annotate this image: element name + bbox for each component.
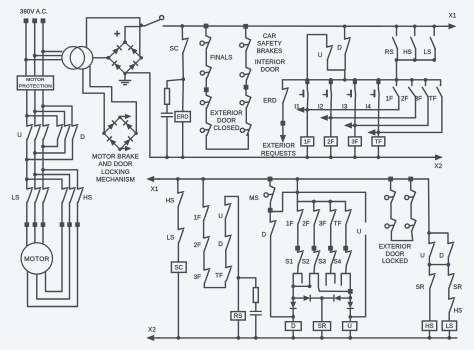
contact I3: [354, 89, 357, 100]
wire SR coil to X2: [321, 330, 323, 338]
wire rail to SC: [181, 26, 183, 40]
wire 1F to 2F: [203, 220, 205, 238]
switch exterior door closed 3: [240, 95, 251, 108]
wire LS1 to motor: [26, 227, 28, 248]
overload terminal 2: [33, 222, 38, 227]
terminal finals mid: [204, 87, 209, 92]
arrow X1 right: [446, 23, 457, 29]
wire finals stem2: [205, 48, 207, 65]
junction UD bracket rail2: [343, 78, 347, 82]
wire diode row right seg: [341, 297, 351, 299]
junction D coil node: [291, 315, 295, 319]
wire L3 to D3: [43, 106, 72, 126]
wire X2 rail upper: [150, 156, 435, 158]
wire X1 rail segment A: [163, 25, 449, 27]
wire HS drop: [415, 48, 417, 60]
junction 1F contact rail2: [395, 78, 399, 82]
junction HS stem X1: [413, 24, 417, 28]
resistor R1: [165, 89, 170, 105]
wire ERD coil to X2: [182, 122, 184, 158]
wire door closed stem3: [245, 89, 247, 95]
contact 3F selector: [422, 87, 428, 97]
overload terminal 1: [25, 222, 30, 227]
wire phase L3 vertical: [42, 23, 44, 76]
junction RS bottom: [395, 58, 399, 62]
junction I4 row: [377, 131, 381, 135]
wire RS coil line: [237, 278, 239, 312]
svg-text:PROTECTION: PROTECTION: [19, 83, 52, 89]
wire D right to node: [447, 257, 449, 265]
wire L1 to D1: [27, 116, 57, 126]
wire MS to terminal: [269, 202, 271, 208]
wire 3F selector drop: [427, 97, 429, 126]
relay coil ERD: [175, 112, 190, 122]
capacitor C1: [161, 112, 172, 114]
svg-text:SC: SC: [170, 46, 179, 53]
junction LS coil X2: [448, 336, 452, 340]
terminal I4 top: [376, 80, 380, 84]
wire resistor to capacitor: [166, 104, 168, 113]
wire D stem: [344, 26, 346, 39]
wire to overload 6: [77, 202, 79, 222]
arrow X2 left: [146, 335, 160, 341]
terminal MS bottom: [268, 208, 273, 213]
wire door locked A mid: [390, 203, 392, 219]
wire S rail L2: [297, 202, 345, 212]
wire to HS1: [27, 179, 62, 189]
wire 1F contact stem: [396, 80, 398, 86]
wire U pole2 down: [34, 139, 36, 189]
push button S1 contact: [298, 251, 304, 266]
contact 3F lower: [204, 269, 210, 284]
terminal car safety top: [243, 24, 248, 29]
contact D mid: [225, 235, 231, 250]
wire door locked B mid: [410, 203, 412, 219]
contact 2F selector: [409, 87, 416, 97]
svg-text:MECHANISM: MECHANISM: [96, 177, 135, 184]
junction F column stem: [201, 177, 205, 181]
svg-text:U: U: [218, 213, 223, 220]
svg-text:2F: 2F: [327, 139, 334, 145]
wire to overload 5: [69, 202, 71, 222]
junction coil 3F X2: [353, 155, 357, 159]
wire I1 to row: [306, 99, 308, 109]
motor protection device: [17, 76, 53, 90]
contactor LS pole 2: [35, 188, 41, 203]
svg-text:S2: S2: [302, 259, 310, 266]
wire to HS3: [43, 170, 78, 189]
wire HS2 loop: [37, 227, 70, 299]
wire TF aux to terminal: [345, 224, 347, 246]
wire L2 to transformer: [35, 55, 62, 57]
wire ERD coil line: [182, 79, 185, 111]
relay coil SC: [171, 262, 186, 272]
terminal I3 top: [353, 80, 357, 84]
contact RS upper: [393, 37, 398, 48]
svg-text:X1: X1: [151, 186, 159, 193]
svg-text:TF: TF: [334, 220, 342, 227]
wire control rail2: [283, 80, 441, 86]
junction L3 to D branch: [41, 104, 45, 108]
arrow X1 left: [146, 176, 160, 182]
svg-text:1F: 1F: [386, 95, 394, 102]
junction L1 cross: [296, 190, 300, 194]
wire I2 to row: [330, 99, 332, 117]
svg-text:INTERIOR: INTERIOR: [255, 59, 286, 66]
svg-text:U: U: [318, 52, 323, 59]
diode D2 steering: [334, 295, 341, 301]
wire to diode D3: [292, 298, 294, 302]
svg-text:D: D: [291, 324, 296, 330]
contact U mid: [225, 204, 231, 219]
wire snubber branch: [238, 278, 255, 288]
wire LS drop: [434, 48, 436, 60]
wire L1 below protection: [26, 90, 28, 126]
relay coil 3F: [349, 137, 362, 146]
relay coil D: [285, 322, 301, 331]
terminal S1 top: [295, 246, 300, 251]
terminal L2: [32, 18, 37, 23]
contact TF mid: [226, 266, 232, 281]
contact 1F aux: [297, 210, 303, 225]
junction I4 stem rail2: [377, 78, 381, 82]
transformer T1: [62, 47, 85, 70]
wire R2 to C2: [255, 303, 257, 312]
wire car safety stem2: [245, 80, 247, 85]
switch exterior door closed 2: [200, 123, 211, 136]
wire 1F selector drop: [398, 97, 400, 110]
wire square to diode row: [349, 294, 351, 298]
wire to HS2: [35, 175, 70, 190]
contactor HS pole 3: [78, 188, 84, 203]
contact SR right: [448, 274, 454, 289]
wire X2 rail lower: [158, 337, 457, 339]
wire I2 stem: [330, 80, 332, 89]
wire U right stem: [428, 233, 430, 244]
wire to overload 1: [26, 202, 28, 222]
junction main switch: [139, 24, 143, 28]
svg-text:FINALS: FINALS: [210, 55, 232, 62]
contact SC: [183, 38, 189, 53]
wire phase L2 vertical: [34, 23, 36, 76]
wire door closed stem4: [245, 108, 247, 123]
wire 3F contact stem: [425, 80, 427, 86]
diode D4 to U coil: [347, 302, 353, 309]
terminal L3: [41, 18, 46, 23]
arrow selector row 2F: [320, 115, 416, 121]
switch exterior door closed 4: [240, 123, 251, 136]
junction diode row left: [291, 296, 295, 300]
wire MS to D contact: [269, 212, 271, 222]
junction D coil X2: [291, 336, 295, 340]
wire HS lower stem: [177, 179, 179, 193]
junction ERD X2: [181, 155, 185, 159]
push button S4 bridge: [341, 274, 350, 290]
contactor LS pole 1: [27, 188, 33, 203]
svg-text:ERD: ERD: [263, 97, 277, 104]
svg-text:HS: HS: [454, 308, 463, 315]
svg-text:S1: S1: [285, 259, 293, 266]
arrow to exterior requests: [280, 126, 286, 144]
arrow brake DC minus: [121, 146, 132, 151]
wire D4 to node: [349, 308, 351, 316]
svg-text:EXTERIOR: EXTERIOR: [263, 143, 296, 150]
svg-text:3F: 3F: [352, 139, 359, 145]
switch interior door: [240, 67, 251, 80]
junction coil 1F X2: [305, 155, 309, 159]
capacitor C2: [250, 310, 261, 312]
relay coil LS: [442, 321, 456, 331]
svg-text:HS: HS: [166, 198, 175, 205]
wire C2 to X2: [255, 315, 257, 338]
contact I2: [330, 89, 333, 100]
arrow selector row 3F: [344, 122, 428, 128]
wire 3F aux stem: [329, 202, 331, 212]
wire U mid to U coil node: [350, 235, 365, 317]
wire brake supply right: [90, 67, 136, 133]
wire D lower to coil node: [271, 235, 294, 317]
wire 2F to 3F: [203, 251, 205, 270]
wire I1 to coil: [306, 110, 308, 137]
limit switch final 1: [200, 36, 211, 49]
terminal door locked A: [388, 177, 393, 182]
junction RS coil branch: [237, 276, 241, 280]
junction 2F contact rail2: [410, 78, 414, 82]
terminal request bus: [348, 289, 353, 294]
wire S4 stem: [345, 250, 347, 252]
contactor D pole 3: [72, 125, 78, 140]
svg-text:LS: LS: [12, 195, 20, 202]
junction coil 2F X2: [329, 155, 333, 159]
svg-text:HS: HS: [403, 49, 412, 56]
svg-text:SAFETY: SAFETY: [257, 41, 282, 48]
wire L1 to transformer: [26, 59, 62, 61]
relay coil 2F: [324, 137, 337, 146]
contact I1: [306, 89, 309, 100]
wire to D coil: [292, 317, 294, 322]
wire L1 link: [270, 192, 365, 222]
diode D1 steering: [304, 295, 311, 301]
svg-text:BRAKES: BRAKES: [257, 48, 283, 55]
svg-text:S3: S3: [318, 259, 326, 266]
svg-text:RS: RS: [234, 314, 243, 320]
contact D upper: [345, 38, 351, 55]
wire merge to rail2: [396, 60, 398, 80]
wire car safety stem1: [245, 28, 247, 37]
junction L2 to D branch: [33, 110, 37, 114]
junction HS lower stem: [176, 177, 180, 181]
contact HS lower: [178, 192, 184, 207]
junction rectifier top: [123, 40, 127, 44]
svg-text:S4: S4: [334, 259, 342, 266]
svg-text:U: U: [347, 324, 351, 330]
switch door locked A1: [385, 190, 396, 203]
wire finals stem1: [205, 28, 207, 36]
svg-text:D: D: [80, 134, 85, 141]
junction U coil X2: [348, 336, 352, 340]
svg-text:ERD: ERD: [177, 115, 189, 121]
wire phase L1 vertical: [25, 23, 27, 76]
svg-text:X2: X2: [148, 327, 156, 334]
svg-text:SR: SR: [318, 324, 327, 330]
svg-text:TF: TF: [429, 95, 437, 102]
svg-text:CAR: CAR: [263, 33, 277, 40]
wire HS right to LS coil: [448, 312, 450, 321]
svg-text:LS: LS: [446, 324, 454, 330]
contact 3F aux: [330, 210, 336, 225]
svg-text:1F: 1F: [286, 220, 294, 227]
wire RS drop: [396, 48, 398, 60]
junction L1 to D branch: [25, 114, 29, 118]
svg-text:MOTOR BRAKE: MOTOR BRAKE: [92, 154, 139, 161]
wire 2F selector drop: [415, 97, 417, 118]
terminal exterior requests: [281, 121, 286, 126]
switch door locked A2: [385, 219, 396, 232]
contact HS upper: [411, 37, 416, 48]
svg-text:TF: TF: [375, 139, 383, 145]
svg-text:2F: 2F: [302, 220, 310, 227]
push button S2 contact: [314, 251, 320, 266]
wire coil TF to X2: [377, 146, 379, 157]
contactor LS pole 3: [43, 188, 49, 203]
wire S4 to button: [345, 265, 348, 273]
svg-text:LOCKED: LOCKED: [382, 258, 408, 265]
terminal I2 top: [329, 80, 333, 84]
svg-text:LS: LS: [167, 235, 175, 242]
contact HS right: [449, 298, 455, 313]
wire HS coil to X2: [429, 331, 431, 338]
junction D2 merge: [33, 151, 37, 155]
svg-text:D: D: [439, 253, 444, 260]
wire 1F aux to terminal: [297, 224, 299, 246]
wire UDTF top bracket: [225, 196, 238, 277]
junction D3 merge: [25, 158, 29, 162]
wire MS stem: [269, 181, 271, 186]
push button S4 contact: [346, 251, 352, 266]
svg-text:RS: RS: [385, 49, 394, 56]
wire U pole1 down: [26, 139, 28, 189]
bridge rectifier motor brake: [102, 116, 138, 151]
wire D1 merge: [43, 139, 58, 146]
wire door closed stem1: [205, 92, 207, 95]
push button S3 contact: [331, 251, 337, 266]
wire door closed bottom bracket: [206, 134, 248, 149]
terminal car safety mid: [244, 85, 249, 90]
svg-text:MS: MS: [249, 195, 258, 202]
wire to resistor: [167, 79, 183, 88]
wire D coil to X2: [292, 330, 294, 338]
wire I3 to row: [354, 99, 356, 125]
svg-text:DOOR: DOOR: [261, 67, 280, 74]
terminal L1: [24, 18, 29, 23]
junction rectifier AC left: [106, 56, 110, 60]
junction D stem rail1: [343, 24, 347, 28]
wire D lower stem: [344, 54, 346, 70]
wire HS to LS: [177, 206, 179, 229]
wire D3 merge: [27, 139, 73, 159]
arrow brake DC plus: [121, 114, 132, 119]
wire door locked bottom bracket: [391, 231, 412, 241]
junction U coil node: [348, 315, 352, 319]
junction SC X2: [177, 336, 181, 340]
push button S1 bridge: [293, 274, 302, 287]
svg-text:U: U: [357, 229, 362, 236]
wire request bus: [319, 290, 348, 292]
junction S rail stem: [296, 177, 300, 181]
wire coil 3F to X2: [354, 146, 356, 157]
wire I3 to coil: [354, 125, 356, 136]
wire U bracket: [307, 35, 326, 80]
wire diode row mid seg: [310, 297, 333, 299]
wire coil 1F to X2: [306, 146, 308, 157]
wire S2 stem: [313, 250, 315, 252]
wire ERD contact stem: [282, 80, 284, 90]
junction L3 to HS branch: [41, 168, 45, 172]
wire HS3 loop: [28, 227, 78, 307]
contact 2F aux: [314, 210, 320, 225]
wire to SR left: [428, 265, 430, 275]
contact I4: [377, 89, 380, 100]
svg-text:I3: I3: [342, 104, 348, 111]
junction I3 stem rail2: [353, 78, 357, 82]
svg-text:SR: SR: [453, 284, 462, 291]
relay coil 1F: [301, 137, 314, 146]
wire transformer top to rail: [87, 18, 140, 57]
wire L2 below protection: [34, 90, 36, 126]
junction S1 output: [291, 284, 295, 288]
wire I2 to coil: [330, 118, 332, 137]
junction SR coil node: [320, 296, 324, 300]
contact U right: [429, 242, 435, 257]
junction diode row right: [348, 296, 352, 300]
terminal S2 top: [312, 246, 317, 251]
wire U right to node: [428, 257, 430, 265]
wire SR right to HS right: [448, 288, 450, 299]
wire ERD to terminal: [282, 102, 284, 121]
wire to overload 2: [34, 202, 36, 222]
wire to diode D4: [349, 298, 351, 302]
wire SC coil to X2: [177, 272, 179, 338]
contact 1F lower: [203, 206, 209, 221]
junction UD right bottom: [447, 263, 451, 267]
wire S2 hop to bus: [318, 283, 319, 291]
terminal S4 top: [343, 246, 348, 251]
wire interior door stem: [245, 50, 247, 67]
svg-text:MOTOR: MOTOR: [24, 256, 49, 263]
wire capacitor to X2: [166, 117, 168, 158]
wire RS HS LS merge: [397, 59, 435, 61]
relay coil U: [343, 322, 357, 331]
wire 2F aux stem: [313, 202, 315, 212]
terminal MS top: [268, 177, 273, 182]
svg-text:LS: LS: [424, 49, 432, 56]
main switch MS: [264, 186, 275, 202]
junction HS bottom: [413, 58, 417, 62]
junction S rail 2F: [312, 200, 316, 204]
wire to U coil: [349, 317, 351, 322]
svg-text:DOOR: DOOR: [386, 251, 405, 258]
junction RC branch: [181, 77, 185, 81]
wire door locked A stem: [390, 181, 392, 190]
wire 2F contact stem: [411, 80, 413, 86]
svg-text:380V A.C.: 380V A.C.: [20, 10, 48, 16]
junction I1 row: [305, 108, 309, 112]
wire diode row left seg: [293, 297, 303, 299]
wire I3 stem: [354, 80, 356, 89]
relay coil TF: [372, 137, 385, 146]
wire L3 to transformer: [43, 51, 62, 53]
terminal I1 top: [305, 80, 309, 84]
